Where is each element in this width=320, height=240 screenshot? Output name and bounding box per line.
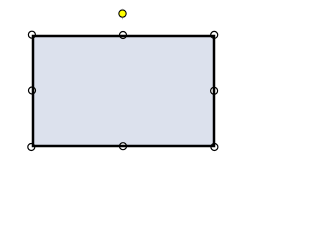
handle white fills: [27, 31, 218, 151]
handle bottom-middle: [120, 143, 127, 150]
handle outlines: [28, 31, 218, 150]
handle bottom-left: [28, 144, 35, 151]
handle middle-right: [211, 87, 218, 94]
rotation handle bottom tick: [121, 18, 124, 19]
rotation handle top tick: [121, 9, 124, 10]
handle middle-left: [29, 87, 36, 94]
handle top-left: [28, 31, 35, 38]
handle top-right: [211, 31, 218, 38]
rectangle shape border: [33, 36, 214, 146]
rotation handle (yellow): [119, 10, 126, 17]
handle bottom-right: [211, 144, 218, 151]
handle top-middle: [120, 32, 127, 39]
rectangle shape fill: [33, 36, 214, 146]
